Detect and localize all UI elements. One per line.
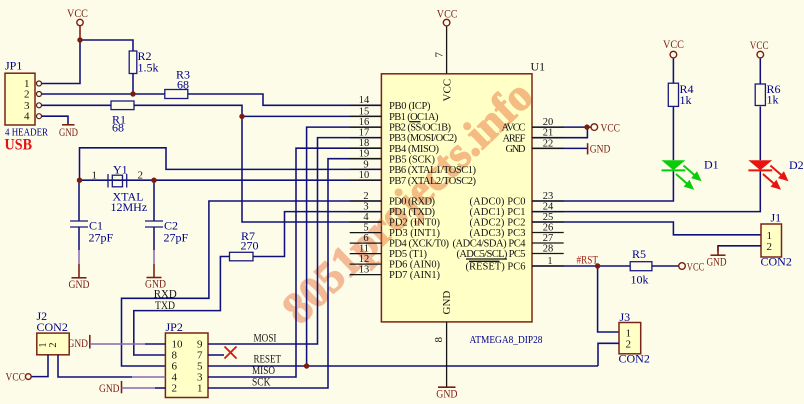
IC U1 unconnected right stubs pins 26,27,28 [532,233,564,254]
svg-text:CON2: CON2 [619,352,650,366]
svg-text:JP2: JP2 [166,320,183,334]
wire D+ junction down to PD2 row to IC pin4 [242,116,381,222]
wire VCC down to JP1 pin1 [42,40,81,84]
svg-text:19: 19 [359,149,370,160]
svg-text:GND: GND [441,291,453,315]
svg-text:1: 1 [626,327,632,339]
svg-text:14: 14 [359,95,370,106]
underline under 5/SCL of PC5 [466,258,507,260]
svg-text:(ADC1) PC1: (ADC1) PC1 [470,207,526,218]
junction at VCC feed to JP1 pin1 and R2 [77,37,82,42]
LED D2 [748,107,803,194]
ground at C2 [145,264,166,291]
resistor R1 [111,101,134,135]
junction AVCC AREF to VCC [584,124,589,129]
power port VCC at J2 [6,370,32,384]
svg-text:ATMEGA8_DIP28: ATMEGA8_DIP28 [470,334,543,346]
ground at pin22 [588,141,611,155]
wire VCC to R4 [672,58,674,83]
ground at C1 [69,264,90,291]
svg-text:10k: 10k [631,273,649,287]
svg-text:RXD: RXD [154,286,177,300]
svg-text:2: 2 [48,343,59,348]
svg-text:VCC: VCC [437,7,458,21]
capacitor C2 [145,180,189,264]
svg-text:1k: 1k [767,93,779,107]
ground at JP2 pin10 [68,335,90,350]
svg-text:1: 1 [197,383,203,395]
svg-text:VCC: VCC [442,79,454,102]
ground at JP1 [59,125,78,139]
svg-text:2: 2 [767,241,773,253]
capacitor C1 [70,180,114,264]
resistor R6 [755,82,780,107]
svg-text:Y1: Y1 [113,163,128,177]
wire R7 left down to TXD wire to JP2 pin8 [134,257,230,356]
wire IC pin25 PC2 to J1 pin1 [532,222,761,235]
junction RESET net at PB2 column [304,363,309,368]
svg-text:VCC: VCC [67,6,88,20]
svg-text:16: 16 [359,117,370,128]
svg-text:R5: R5 [632,247,646,261]
IC U1 body [381,74,532,322]
svg-text:CON2: CON2 [37,320,68,334]
wire R5 to VCC [652,265,679,267]
LED D1 [662,107,719,194]
svg-text:GND: GND [436,387,457,401]
svg-text:2: 2 [138,170,144,182]
resistor R2 [129,49,158,75]
svg-text:PD0 (RXD): PD0 (RXD) [389,197,436,208]
svg-text:D1: D1 [704,157,719,171]
wire J1 pin2 to GND [718,246,761,252]
wire IC pin24 PC1 up to LED D2 [532,170,760,211]
svg-text:PD4 (XCK/T0): PD4 (XCK/T0) [389,239,450,250]
svg-text:GND: GND [59,125,78,139]
wire JP2 pin1 SCK up to IC pin19 PB5 [208,159,381,388]
svg-text:PB6 (XTAL1/TOSC1): PB6 (XTAL1/TOSC1) [389,165,477,176]
resistor R3 [165,67,190,98]
power port VCC at R6 [750,38,769,58]
node XTAL1 crystal pin1 [77,178,82,183]
wire J2 pin1 to VCC [32,355,49,377]
pin 8 stem GND bottom [446,322,448,387]
svg-text:2: 2 [626,339,632,351]
power port VCC top-left [67,6,88,40]
connector J3 [619,310,650,366]
wire #RST junction down to J3 pin1 [598,266,619,332]
svg-text:PB4 (MISO): PB4 (MISO) [389,144,440,155]
svg-text:AREF: AREF [503,133,526,144]
wire IC pin1 RESET to R5 [532,265,630,267]
wire JP2 pin5 RESET long wire [208,365,598,367]
wire GND to JP2 pin10 [90,343,145,345]
IC U1 left pin numbers [359,95,370,275]
svg-text:2: 2 [363,191,368,202]
svg-text:USB: USB [5,137,33,154]
svg-text:270: 270 [241,239,259,253]
wire JP1 pin4 to GND [42,116,69,124]
junction USB D+ node at R1 output [239,114,244,119]
wire VCC to R6 [759,58,761,84]
svg-text:GND: GND [68,336,89,350]
wire crystal node1 up over to IC pin9 XTAL1 [80,148,382,180]
wire JP1 pin3 to R1 [42,104,112,106]
junction #RST node at R5 [595,263,600,268]
wire IC pin2 PD0 down to RXD wire to JP2 pin6 [122,201,382,366]
connector JP1 [5,59,49,154]
svg-text:PD1 (TXD): PD1 (TXD) [389,207,436,218]
IC U1 right pin names [453,123,527,273]
crystal Y1 [92,163,148,215]
svg-text:68: 68 [112,121,124,135]
svg-text:PB2 (SS/OC1B): PB2 (SS/OC1B) [389,123,452,134]
svg-text:GND: GND [707,254,727,268]
svg-text:(RESET) PC6: (RESET) PC6 [466,262,526,273]
svg-text:PD3 (INT1): PD3 (INT1) [389,228,441,239]
wire R7 right to IC pin3 PD1 [253,212,381,257]
svg-text:PD2 (INT0): PD2 (INT0) [389,218,441,229]
svg-text:VCC: VCC [601,120,621,134]
svg-text:2: 2 [24,89,30,101]
svg-text:VCC: VCC [687,260,705,274]
svg-text:(ADC4/SDA) PC4: (ADC4/SDA) PC4 [453,239,527,250]
svg-text:U1: U1 [531,60,546,74]
svg-text:SCK: SCK [252,374,271,388]
svg-text:27: 27 [543,233,554,244]
IC U1 left pin names [389,101,477,281]
svg-text:27pF: 27pF [164,231,189,245]
ground at JP2 pin2 [99,381,122,395]
power port VCC at R4 [663,37,684,58]
svg-text:PD7 (AIN1): PD7 (AIN1) [389,270,441,281]
svg-text:15: 15 [359,106,370,117]
svg-text:6: 6 [363,233,368,244]
wire JP1 pin2 to R3 [42,93,165,95]
svg-text:VCC: VCC [663,37,684,51]
svg-text:D2: D2 [789,158,804,172]
wire JP2 pin9 MOSI up to IC pin17 PB3 [208,138,381,344]
wire JP2 pin3 MISO up to IC pin18 PB4 [208,148,381,377]
svg-text:J1: J1 [771,211,782,225]
svg-text:11: 11 [359,244,369,255]
svg-text:10: 10 [359,170,370,181]
svg-text:PD6 (AIN0): PD6 (AIN0) [389,260,441,271]
wire GND to JP2 pin2 [122,387,156,389]
resistor R7 [230,229,259,261]
wire crystal row node1 to node2 to IC pin10 XTAL2 [80,179,382,181]
ground at pin8 [438,386,456,388]
svg-text:18: 18 [359,138,370,149]
wire IC pin20 AVCC to VCC [532,126,591,128]
wire R1 to junction to IC pin15 [134,105,381,116]
svg-text:PB3 (MOSI/OC2): PB3 (MOSI/OC2) [389,133,458,144]
svg-text:CON2: CON2 [761,255,792,269]
svg-text:4: 4 [363,212,369,223]
resistor R5 [630,247,652,287]
svg-text:PB0 (ICP): PB0 (ICP) [389,101,431,112]
JP2 pin7 no-connect stub [208,354,224,356]
wire R3 to IC pin14 [188,94,382,105]
svg-text:VCC: VCC [6,370,26,384]
svg-text:12MHz: 12MHz [111,200,148,214]
connector J1 [761,211,792,269]
svg-text:26: 26 [543,222,554,233]
svg-text:1.5k: 1.5k [138,61,159,75]
ground at J1 [707,246,727,268]
junction USB D- node at R2 bottom [130,91,135,96]
svg-text:(ADC3) PC3: (ADC3) PC3 [470,228,526,239]
svg-text:(ADC0) PC0: (ADC0) PC0 [470,197,526,208]
power port VCC at R5 [679,260,705,274]
svg-text:2: 2 [172,383,178,395]
svg-text:GND: GND [99,381,120,395]
svg-text:28: 28 [543,243,554,254]
no-connect X mark [225,347,237,359]
svg-text:GND: GND [506,144,526,155]
svg-text:1: 1 [92,170,98,182]
overline over SS of PB2 [410,121,421,123]
svg-text:#RST: #RST [577,253,599,267]
overline over RESET of PC6 [469,260,500,262]
wire IC pin22 to GND [532,147,588,149]
svg-text:JP1: JP1 [5,59,22,73]
svg-text:1k: 1k [680,93,692,107]
pin 7 stem VCC top [446,26,448,74]
wire J2 pin2 to JP2 pin4 [58,355,132,377]
svg-text:PD5 (T1): PD5 (T1) [389,249,428,260]
svg-text:9: 9 [363,159,368,170]
wire RESET junction up to IC pin16 PB2 [307,127,382,366]
node XTAL2 crystal pin2 [151,178,156,183]
connector JP2 [165,320,208,398]
resistor R4 [668,82,693,107]
svg-text:8: 8 [433,337,445,343]
wire IC pin21 AREF up to AVCC junction [532,127,587,138]
svg-text:27pF: 27pF [89,231,114,245]
wire J3 pin2 down to RESET wire [598,343,619,366]
svg-text:7: 7 [434,52,446,58]
power port VCC at AVCC [591,120,620,134]
svg-text:5: 5 [363,223,368,234]
svg-text:(ADC2) PC2: (ADC2) PC2 [470,218,526,229]
svg-text:AVCC: AVCC [502,123,526,134]
svg-text:12: 12 [359,254,370,265]
svg-text:3: 3 [363,202,368,213]
wire IC pin23 PC0 up to LED D1 [532,170,673,201]
IC U1 black pin stubs overlay right [532,127,564,266]
wire VCC to R2 top [80,40,133,51]
svg-text:GND: GND [590,141,611,155]
IC U1 black pin stubs overlay left [350,105,382,222]
svg-text:VCC: VCC [750,38,769,52]
wire R2 bottom to junction [132,74,134,95]
svg-text:GND: GND [69,277,90,291]
connector J2 [37,309,70,355]
IC U1 unconnected left stubs pins 5,6,11,12,13 [350,233,382,275]
IC U1 pins and labels [433,7,545,401]
svg-text:MOSI: MOSI [254,330,277,344]
svg-text:17: 17 [359,128,370,139]
svg-text:4: 4 [24,111,30,123]
svg-text:13: 13 [359,265,370,276]
IC U1 right pin numbers [543,117,554,267]
svg-text:PB7 (XTAL2/TOSC2): PB7 (XTAL2/TOSC2) [389,176,477,187]
svg-text:PB5 (SCK): PB5 (SCK) [389,154,436,165]
